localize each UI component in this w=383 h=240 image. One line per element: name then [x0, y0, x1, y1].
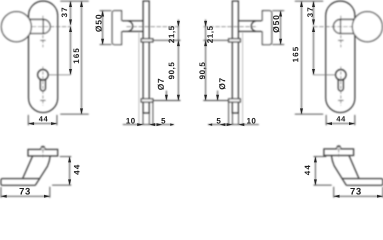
left side view: dia 7 leader line: [165, 91, 167, 101]
bottom right top view: grip bar: [342, 179, 383, 186]
arrows 44 dim right front: [326, 122, 332, 125]
label 90,5 left: [169, 62, 176, 79]
right front view: euro cylinder circle: [336, 70, 347, 81]
left side view: knob axis centerline: [127, 26, 181, 28]
label 44 bottom right: [305, 165, 311, 175]
right front view: dim line 37: [313, 1, 315, 25]
label 44 right front: [336, 116, 345, 121]
label 165 left: [73, 48, 79, 63]
label 21,5 left: [169, 26, 176, 43]
bottom left top view: 44 dim line: [69, 157, 71, 186]
right front view: top extension line: [295, 0, 323, 2]
left front view: 44 dim line: [28, 123, 57, 125]
left front view: backplate: [29, 1, 58, 113]
arrows 5 dim right: [220, 123, 226, 126]
arrows 73 dim right: [334, 195, 340, 198]
right front view: cylinder axis leader: [313, 74, 335, 76]
left front view: knob neck with collar arc: [29, 20, 50, 34]
left side view: dia 50 dim line: [102, 11, 104, 45]
left side view: boss 2 leader: [153, 100, 181, 102]
arrows 21.5 and 90.5 chain left: [177, 21, 180, 27]
left side view: screw boss 2: [141, 99, 153, 102]
label 5 left: [161, 118, 165, 124]
left front view: cylinder vertical centerline: [42, 67, 44, 106]
right side view: boss 2 leader: [203, 100, 228, 102]
bottom left top view: 73 dim line: [1, 195, 50, 197]
arrows 73 dim left: [1, 195, 7, 198]
label dia7 right: [219, 78, 225, 89]
right front view: screw hole cross 2: [338, 99, 343, 101]
bottom right top view: 73 extension lines: [334, 187, 383, 198]
left front view: euro cylinder circle: [38, 70, 49, 81]
left side view: faint projection line: [138, 33, 140, 125]
arrows 10 dim left: [137, 123, 143, 126]
arrows 165 dim right: [300, 1, 303, 7]
label 165 right: [293, 47, 299, 62]
label dia50 right: [273, 16, 279, 33]
right front view: screw hole cross 1: [338, 39, 343, 41]
arrows 44 dim bottom right: [314, 157, 317, 163]
left side view: knob neck and collar arc: [122, 21, 144, 32]
left front view: dim line 165: [81, 1, 83, 114]
bottom right top view: centre boss bump: [336, 147, 341, 149]
right front view: dim line 165: [301, 1, 303, 114]
right side view: dim chain line 21.5 / 90.5: [205, 20, 207, 101]
arrows 5 dim left: [157, 123, 163, 126]
arrow dia7 leader left: [165, 95, 168, 101]
bottom left top view: centre boss bump: [41, 147, 46, 149]
right front view: backplate: [326, 1, 355, 113]
bottom right top view: 44 dim line: [314, 157, 316, 186]
left side view: dim chain line 21.5 / 90.5: [177, 20, 179, 101]
label dia7 left: [158, 79, 164, 90]
arrow dia7 leader right: [216, 95, 219, 101]
bottom left top view: neck right boundary: [35, 156, 50, 185]
label 44 bottom left: [74, 165, 80, 175]
bottom left top view: boss tick: [41, 146, 45, 148]
bottom right top view: plate: [324, 149, 354, 156]
bottom left top view: vertical centerline: [42, 145, 44, 158]
right side view: screw boss 1: [229, 39, 241, 42]
left side view: boss 1 leader: [153, 39, 181, 41]
left side view: screw boss 1: [141, 39, 153, 42]
right side view: dia 50 dim line: [280, 11, 282, 45]
left side view: bottom extension lines: [143, 102, 153, 125]
bottom right top view: neck right slant: [349, 156, 359, 179]
left front view: euro cylinder slot: [40, 79, 45, 91]
right side view: dia 7 leader line: [217, 91, 219, 101]
bottom left top view: 73 extension lines: [1, 187, 50, 198]
left front view: cylinder axis leader: [48, 74, 70, 76]
label 10 left: [126, 118, 134, 124]
bottom left top view: neck left slant: [23, 156, 33, 179]
right front view: dim line knob axis to cylinder axis: [313, 26, 315, 75]
left side view: plate bar: [143, 1, 149, 113]
left front view: knob circle: [1, 12, 31, 42]
right front view: 44 extension lines: [326, 115, 355, 125]
right front view: 44 dim line: [326, 123, 355, 125]
arrows dia50 dim right: [279, 11, 282, 17]
right side view: bottom dim line 5 and 10: [208, 124, 259, 126]
bottom right top view: neck left boundary: [331, 156, 346, 186]
arrows 44 dim bottom left: [68, 157, 71, 163]
label 90,5 right: [199, 62, 206, 79]
right front view: euro cylinder slot: [338, 79, 343, 91]
right side view: faint projection line: [242, 33, 244, 125]
label 5 right: [217, 118, 221, 124]
bottom left top view: grip bar: [1, 179, 40, 186]
bottom left top view: plate: [28, 149, 58, 156]
left front view: 44 extension lines: [28, 115, 57, 125]
left front view: knob axis centerline: [32, 26, 71, 28]
label 37 left: [61, 8, 67, 18]
right front view: knob axis centerline: [313, 26, 352, 28]
left front view: top extension line: [60, 0, 88, 2]
left front view: dim line knob axis to cylinder axis: [70, 26, 72, 75]
label 73 bottom left: [20, 188, 30, 195]
right front view: bottom extension line: [295, 113, 323, 115]
arrows 165 dim left: [80, 1, 83, 7]
right side view: knob disc: [262, 11, 271, 45]
label 37 right: [307, 8, 313, 18]
right side view: screw boss 2: [229, 99, 241, 102]
bottom right top view: boss tick: [337, 145, 341, 147]
left side view: knob disc: [112, 11, 121, 45]
left front view: vertical dashed centerline through neck: [42, 16, 44, 48]
bottom right top view: 73 dim line: [334, 195, 383, 197]
left side view: bottom dim line 10 and 5: [123, 124, 174, 126]
label 73 bottom right: [350, 188, 360, 195]
arrows 37 dim left: [69, 1, 72, 7]
arrows 37 dim right: [312, 1, 315, 7]
left front view: bottom extension line: [60, 113, 88, 115]
label 44 left front: [39, 116, 48, 121]
left front view: screw hole cross 2: [40, 99, 45, 101]
arrows 21.5 and 90.5 chain right: [204, 21, 207, 27]
label dia50 left: [95, 15, 101, 32]
right side view: knob axis centerline: [203, 26, 257, 28]
right front view: knob neck with collar arc: [334, 20, 355, 34]
right side view: knob neck and collar arc: [238, 21, 262, 32]
left front view: dim line 37: [70, 1, 72, 25]
bottom right top view: 44 extension lines: [314, 157, 332, 186]
right front view: knob circle: [352, 12, 382, 42]
left front view: screw hole cross 1: [40, 39, 45, 41]
bottom right top view: vertical centerline: [338, 145, 340, 158]
bottom left top view: 44 extension lines: [52, 157, 71, 186]
label 21,5 right: [207, 26, 214, 43]
left side view: dia 50 extension lines: [100, 11, 112, 45]
right front view: vertical dashed centerline through neck: [340, 16, 342, 48]
arrows dia50 dim left: [101, 11, 104, 17]
arrows 10 dim right: [239, 123, 245, 126]
arrows axis-cylinder dim left: [69, 26, 72, 32]
arrows 44 dim left front: [28, 122, 34, 125]
right side view: plate bar: [232, 1, 238, 113]
label 10 right: [247, 118, 255, 124]
right side view: boss 1 leader: [203, 39, 228, 41]
right side view: bottom extension lines: [229, 102, 239, 125]
right front view: cylinder vertical centerline: [340, 67, 342, 106]
right side view: dia 50 extension lines: [272, 11, 284, 45]
arrows axis-cylinder dim right: [312, 26, 315, 32]
